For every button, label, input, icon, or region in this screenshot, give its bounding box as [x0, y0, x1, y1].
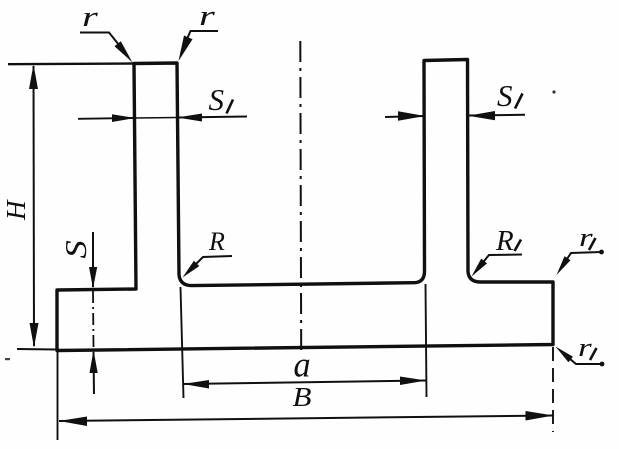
dimension S1 right arrow right: [398, 111, 425, 120]
leader r right: [181, 31, 218, 53]
dimension S1 right line: [385, 115, 525, 117]
dimension S1 right arrow left: [468, 111, 495, 120]
dimension S line upper: [92, 232, 94, 287]
dimension H arrow down: [30, 323, 39, 348]
dimension S1 left arrow left: [177, 114, 202, 122]
svg-text:S: S: [209, 82, 225, 117]
svg-text:a: a: [294, 345, 311, 385]
leader r1 bottom arrow: [556, 347, 574, 363]
svg-text:H: H: [1, 199, 31, 221]
leader r1 bottom: [563, 353, 604, 366]
dimension B line: [59, 416, 554, 422]
label H: [1, 199, 31, 221]
dimension H extension bottom: [17, 348, 57, 351]
svg-text:R: R: [495, 225, 514, 257]
dimension H line: [33, 66, 36, 346]
dimension H arrow up: [29, 65, 38, 90]
dimension S1 left arrow right: [112, 114, 135, 122]
dimension a extension right: [426, 284, 427, 397]
svg-text:R: R: [208, 227, 225, 256]
leader r right arrow: [179, 36, 193, 62]
label R1: [495, 225, 521, 257]
dimension S dashdot through base: [92, 291, 95, 348]
leader r1 top: [561, 250, 604, 268]
svg-text:B: B: [293, 383, 312, 413]
svg-text:S: S: [497, 78, 513, 113]
dimension B extension left: [57, 352, 59, 440]
label r1 bottom: [578, 332, 597, 361]
svg-text:r: r: [82, 1, 98, 32]
stray speck right of S1: [552, 90, 555, 93]
label S1 left: [209, 82, 234, 117]
centerline: [299, 41, 302, 352]
svg-text:r: r: [199, 0, 215, 31]
dimension B extension right: [552, 347, 554, 432]
dimension S1 left line: [78, 117, 247, 119]
leader r left arrow: [115, 41, 133, 62]
dimension a line: [183, 381, 426, 385]
leader R1: [477, 255, 522, 270]
label S1 right: [497, 78, 523, 113]
dimension a arrow right: [400, 377, 426, 386]
stray speck left margin: [5, 358, 10, 360]
profile outline: [57, 60, 553, 351]
leader r left: [80, 33, 127, 56]
dimension B arrow left: [59, 417, 87, 427]
leader R: [188, 256, 232, 272]
dimension H extension top: [8, 62, 133, 65]
leader R arrow: [183, 261, 200, 278]
dimension B arrow right: [526, 411, 554, 421]
svg-text:S: S: [59, 240, 93, 258]
dimension a extension left: [181, 287, 184, 398]
dimension a arrow left: [183, 380, 209, 389]
label r1 top: [579, 222, 596, 251]
dimension S arrow up: [90, 350, 98, 373]
dimension S line lower: [93, 352, 96, 394]
leader R1 arrow: [472, 259, 488, 277]
dimension S arrow down: [89, 267, 97, 289]
label S: [59, 240, 93, 258]
leader r1 top arrow: [557, 256, 571, 275]
